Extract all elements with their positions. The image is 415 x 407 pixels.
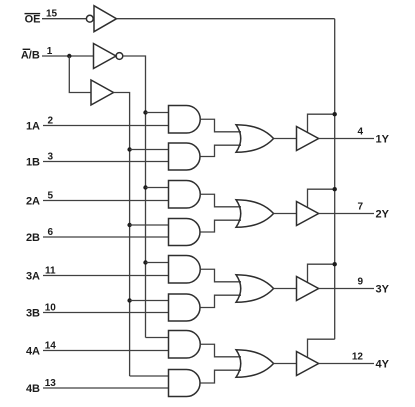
wire enable branch row 3 (308, 264, 335, 282)
wire AND3 out to OR (200, 194, 241, 207)
enable rail (vertical) (334, 19, 336, 340)
svg-text:4A: 4A (26, 346, 40, 358)
AND gate A7 (4A) (169, 331, 201, 359)
svg-text:2Y: 2Y (376, 209, 390, 221)
wire OR out to buffer (274, 213, 297, 215)
wire enable branch row 1 (308, 114, 335, 132)
buffer U3 (A/B) (91, 80, 114, 105)
svg-text:1A: 1A (26, 121, 40, 133)
svg-text:OE: OE (25, 14, 41, 26)
wire A/B pin (42, 55, 94, 57)
svg-text:4Y: 4Y (376, 359, 390, 371)
svg-text:4: 4 (357, 127, 363, 138)
OR gate O4 (236, 350, 274, 378)
node enable tap row 2 (333, 187, 337, 191)
AND gate A4 (2B) (169, 219, 201, 246)
node S2 tap row 1 (127, 147, 131, 151)
wire AND1 out to OR (200, 119, 241, 132)
svg-text:1B: 1B (26, 157, 40, 169)
wire enable branch row 2 (308, 189, 335, 207)
wire AND2 out to OR (200, 145, 241, 156)
wire S1 to AND3 (146, 187, 169, 189)
wire AND8 out to OR (200, 370, 241, 383)
wire U2 out to select rail S1 (123, 56, 146, 338)
node enable tap row 1 (333, 112, 337, 116)
AND gate A1 (1A) (169, 106, 201, 134)
wire 2B to AND gate (43, 236, 169, 238)
svg-text:A/B: A/B (21, 50, 40, 62)
node S1 tap row 3 (143, 260, 147, 264)
wire 3B to AND gate (43, 312, 169, 314)
wire branch to buffer U3 (69, 56, 91, 93)
wire U1 output to enable rail (117, 18, 335, 20)
wire OR out to buffer (274, 288, 297, 290)
node S2 tap row 2 (127, 223, 131, 227)
wire 2A to AND gate (43, 200, 169, 202)
wire enable rail end into buffer U7 (308, 339, 335, 357)
wire S1 to AND5 (146, 262, 169, 264)
svg-text:9: 9 (357, 277, 363, 288)
OR gate O3 (236, 275, 274, 303)
svg-text:2A: 2A (26, 196, 40, 208)
tri-state buffer U6 (3Y) (297, 277, 319, 301)
wire S2 to AND4 (130, 224, 169, 226)
wire 3A to AND gate (43, 275, 169, 277)
tri-state buffer U4 (1Y) (297, 127, 319, 151)
tri-state buffer U7 (4Y) (297, 352, 319, 376)
svg-text:2B: 2B (26, 232, 40, 244)
svg-text:4B: 4B (26, 383, 40, 395)
AND gate A5 (3A) (169, 256, 201, 284)
wire AND4 out to OR (200, 220, 241, 232)
OR gate O1 (236, 125, 274, 153)
node enable tap row 3 (333, 262, 337, 266)
wire output 4Y (319, 363, 374, 365)
AND gate A6 (3B) (169, 294, 201, 321)
AND gate A2 (1B) (169, 143, 201, 170)
svg-text:1Y: 1Y (376, 134, 390, 146)
wire 1A to AND gate (43, 125, 169, 127)
wire S1 to AND1 (146, 112, 169, 114)
node S1 tap row 2 (143, 185, 147, 189)
wire AND7 out to OR (200, 344, 241, 357)
wire OE pin to inverter (42, 18, 86, 20)
tri-state buffer U5 (2Y) (297, 202, 319, 226)
wire AND6 out to OR (200, 295, 241, 307)
wire 4B to AND gate (43, 387, 169, 389)
wire 1B to AND gate (43, 161, 169, 163)
svg-text:7: 7 (357, 202, 363, 213)
wire S1 rail end into AND7 (146, 337, 169, 339)
node S2 tap row 3 (127, 298, 131, 302)
AND gate A3 (2A) (169, 181, 201, 209)
AND gate A8 (4B) (169, 370, 201, 397)
wire output 1Y (319, 138, 374, 140)
wire 4A to AND gate (43, 350, 169, 352)
wire output 3Y (319, 288, 374, 290)
svg-text:3B: 3B (26, 308, 40, 320)
wire OR out to buffer (274, 363, 297, 365)
svg-text:3A: 3A (26, 271, 40, 283)
OR gate O2 (236, 200, 274, 228)
svg-text:3Y: 3Y (376, 284, 390, 296)
wire U3 out to select rail S2 (114, 93, 130, 377)
inverter U1 (OE, input bubble) (86, 15, 93, 22)
inverter U2 (A/B, output bubble) (94, 44, 117, 69)
wire AND5 out to OR (200, 269, 241, 282)
node S1 tap row 1 (143, 110, 147, 114)
wire S2 rail end into AND8 (130, 375, 169, 377)
wire S2 to AND2 (130, 149, 169, 151)
wire S2 to AND6 (130, 300, 169, 302)
wire output 2Y (319, 213, 374, 215)
wire OR out to buffer (274, 138, 297, 140)
node A/B branch (67, 54, 71, 58)
svg-text:12: 12 (352, 352, 364, 363)
svg-text:15: 15 (46, 9, 58, 20)
